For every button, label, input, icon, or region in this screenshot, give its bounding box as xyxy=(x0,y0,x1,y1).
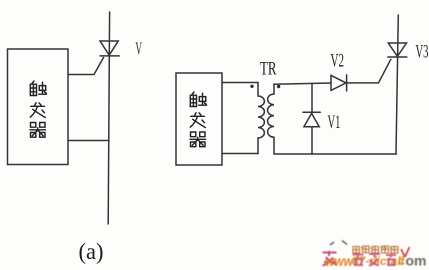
wire: V2 to gate of V3 xyxy=(347,59,391,83)
transformer TR primary winding xyxy=(258,83,264,154)
watermark tick marks xyxy=(330,241,347,246)
wire: lower wire from left box to main vertical line xyxy=(68,140,109,142)
diode V2 (pointing right) xyxy=(331,75,347,91)
trigger box U1 (left 触发器) xyxy=(8,49,69,165)
wire: gate wire from left box to thyristor V xyxy=(68,58,104,75)
diode V1 (pointing up) xyxy=(303,112,320,127)
polarity dot (secondary) xyxy=(277,85,280,88)
wire: V1 to bottom rail xyxy=(311,127,313,154)
polarity dot (primary) xyxy=(250,85,253,88)
wire: secondary top rail to diode V2 xyxy=(274,83,331,84)
watermark (bottom-right colorful) xyxy=(323,241,427,270)
svg-text:V2: V2 xyxy=(331,52,345,72)
svg-text:www: www xyxy=(325,254,354,269)
wire: bottom rail of right circuit xyxy=(274,153,396,155)
svg-text:c: c xyxy=(398,253,405,268)
svg-text:TR: TR xyxy=(260,60,277,80)
watermark red slash mark xyxy=(401,247,410,257)
thyristor V3 xyxy=(388,43,407,57)
wire: main vertical line through thyristor V xyxy=(108,12,109,224)
wire: right box to transformer primary top xyxy=(222,82,258,84)
wire: V1 branch from top rail xyxy=(311,84,313,113)
transformer TR secondary winding xyxy=(268,84,274,154)
svg-text:V3: V3 xyxy=(416,43,429,63)
wire: right box to transformer primary bottom xyxy=(222,153,258,155)
wire: V3 main vertical line xyxy=(396,15,398,154)
label 触发器 (left box, drawn glyphs) xyxy=(30,81,47,137)
watermark big magenta char xyxy=(323,251,337,266)
svg-text:V1: V1 xyxy=(328,113,341,133)
thyristor V xyxy=(100,41,119,56)
watermark middle pink glyphs xyxy=(353,253,397,267)
watermark small char row xyxy=(353,246,398,254)
svg-text:(a): (a) xyxy=(79,239,104,264)
svg-text:V: V xyxy=(136,39,143,59)
svg-text:om: om xyxy=(406,253,427,269)
label 触发器 (right box, drawn glyphs) xyxy=(190,92,207,147)
trigger box U2 (right 触发器) xyxy=(176,73,222,165)
